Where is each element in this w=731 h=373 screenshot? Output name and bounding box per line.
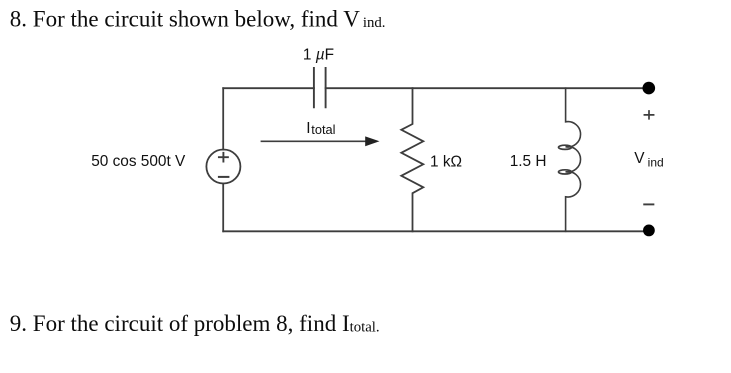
svg-text:9. For the circuit of problem: 9. For the circuit of problem 8, find It… <box>10 311 380 336</box>
svg-text:Vind: Vind <box>634 150 663 170</box>
wire left vertical lower <box>222 184 224 232</box>
svg-text:50 cos 500t V: 50 cos 500t V <box>91 153 186 170</box>
source plus sign <box>219 153 228 162</box>
node dot bottom-right <box>643 225 655 237</box>
svg-text:1 µF: 1 µF <box>303 46 334 63</box>
output plus sign <box>644 111 653 119</box>
capacitor C1 plates <box>314 68 326 107</box>
output minus sign <box>644 203 653 205</box>
svg-text:1.5 H: 1.5 H <box>510 153 547 170</box>
inductor loop ellipse upper <box>559 145 572 149</box>
wire bottom <box>223 230 649 232</box>
resistor R1 zigzag with leads <box>401 88 423 231</box>
source V1 circle <box>206 150 240 184</box>
inductor loop ellipse lower <box>559 170 572 174</box>
svg-text:1 kΩ: 1 kΩ <box>430 153 462 170</box>
svg-text:Itotal: Itotal <box>306 120 335 137</box>
wire top-right segment <box>326 87 649 89</box>
wire top-left segment <box>223 87 314 89</box>
arrow Itotal head <box>365 136 379 146</box>
inductor L1 leads and coil <box>566 88 581 231</box>
arrow Itotal line <box>261 140 367 142</box>
wire left vertical upper <box>222 88 224 149</box>
svg-text:8. For the circuit shown below: 8. For the circuit shown below, find Vin… <box>10 6 386 31</box>
node dot top-right <box>643 82 656 95</box>
source minus sign <box>219 176 229 178</box>
